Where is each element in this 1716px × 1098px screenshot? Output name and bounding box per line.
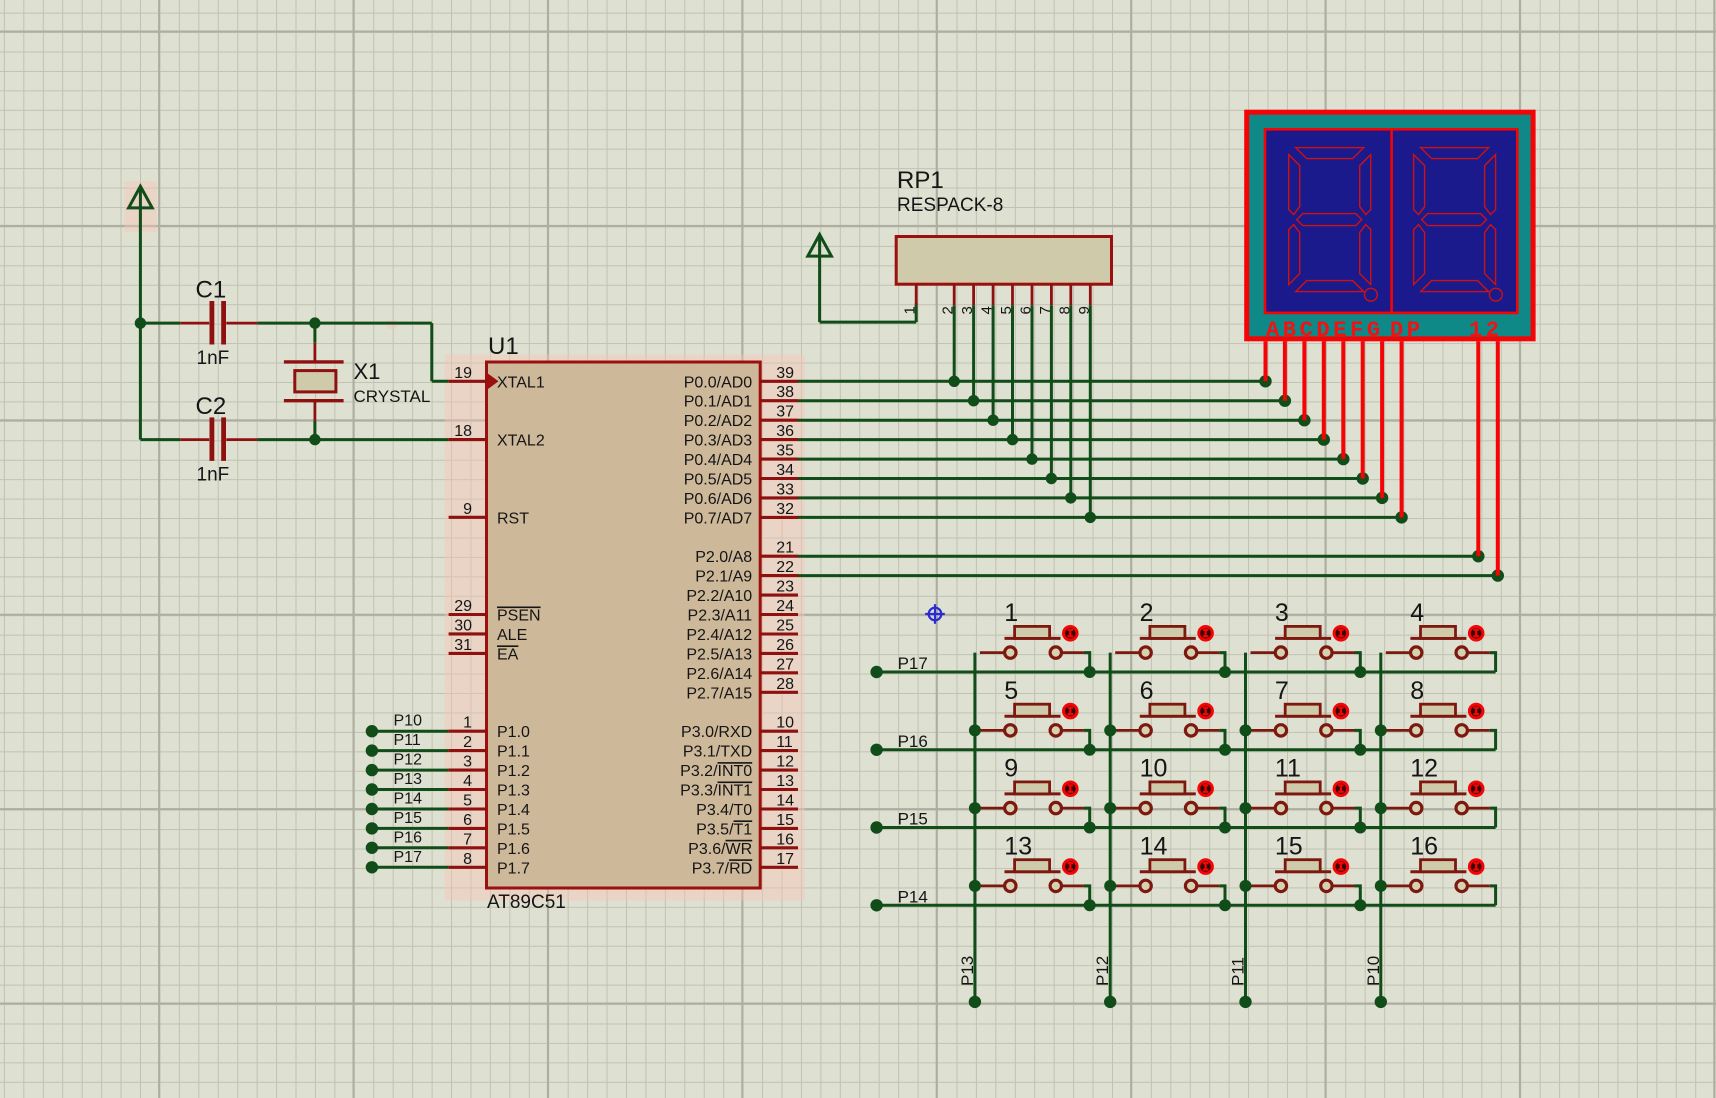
RP1 pin 6 — [1031, 284, 1034, 305]
svg-text:P0.3/AD3: P0.3/AD3 — [684, 433, 753, 450]
display pin digit 1 — [1476, 341, 1480, 556]
svg-text:P0.6/AD6: P0.6/AD6 — [684, 491, 753, 508]
svg-text:37: 37 — [776, 404, 794, 421]
pin 33 stub — [760, 496, 798, 499]
wire button 15 to row — [1355, 886, 1361, 905]
display pin F — [1361, 341, 1365, 478]
net terminal P14 — [366, 803, 378, 815]
svg-text:CRYSTAL: CRYSTAL — [354, 387, 431, 406]
push button 13 — [980, 860, 1084, 892]
display pin DP — [1400, 341, 1404, 517]
svg-text:14: 14 — [776, 793, 794, 810]
svg-text:16: 16 — [1410, 832, 1438, 860]
svg-text:2: 2 — [1140, 599, 1154, 627]
microcontroller U1 body — [487, 362, 761, 888]
pin 15 stub — [760, 827, 798, 830]
wire C2 to XTAL2 pin — [257, 438, 448, 441]
RP1 pin 5 — [1011, 284, 1014, 305]
svg-text:P16: P16 — [394, 829, 423, 846]
svg-text:P12: P12 — [1093, 956, 1112, 986]
wire RP1 pin 9 to P0.7 — [1089, 305, 1092, 517]
wire button 5 to row — [1084, 730, 1090, 749]
display pin G — [1380, 341, 1384, 498]
net terminal P15 — [366, 822, 378, 834]
wire net P0.1 — [798, 399, 1285, 402]
7-segment display body — [1247, 112, 1533, 339]
svg-text:9: 9 — [463, 501, 472, 518]
svg-text:AT89C51: AT89C51 — [487, 892, 566, 913]
junction button 10 / row — [1219, 822, 1231, 834]
svg-text:1: 1 — [1004, 599, 1018, 627]
svg-text:U1: U1 — [488, 333, 519, 360]
junction P0.2 / display pin — [1298, 414, 1310, 426]
junction button 13 / row — [1084, 899, 1096, 911]
svg-text:XTAL2: XTAL2 — [497, 433, 545, 450]
junction P2.0 / display pin — [1472, 550, 1484, 562]
wire rail to C1 — [140, 322, 180, 325]
wire button 3 to row — [1355, 653, 1361, 672]
junction C1/XTAL top — [309, 317, 320, 328]
svg-text:P0.2/AD2: P0.2/AD2 — [684, 413, 753, 430]
svg-text:P1.2: P1.2 — [497, 763, 530, 780]
junction P0.1 / display pin — [1279, 395, 1291, 407]
display pin C — [1302, 341, 1306, 420]
push button 4 — [1386, 626, 1490, 658]
wire power rail — [139, 208, 142, 440]
digit 2 segments — [1414, 148, 1503, 302]
svg-text:RP1: RP1 — [897, 167, 944, 194]
wire net P0.3 — [798, 438, 1324, 441]
push button 5 — [980, 704, 1084, 736]
pin 21 stub — [760, 555, 798, 558]
net terminal P10 — [1375, 996, 1387, 1008]
RP1 pin 3 — [972, 284, 975, 305]
wire C1 to corner — [257, 322, 432, 325]
origin marker (blue) — [925, 604, 945, 624]
pin 2 (P1.1) stub — [449, 749, 487, 752]
svg-text:7: 7 — [463, 831, 472, 848]
pin 3 (P1.2) stub — [449, 769, 487, 772]
junction RP1 pin 2 / P0.0 — [949, 376, 960, 387]
display pin B — [1283, 341, 1287, 400]
svg-text:12: 12 — [1469, 318, 1503, 343]
capacitor C1 — [180, 301, 257, 345]
svg-text:11: 11 — [776, 734, 793, 751]
RP1 pin 7 — [1050, 284, 1053, 305]
wire button 7 to row — [1355, 730, 1361, 749]
net terminal P12 — [366, 764, 378, 776]
pin 29 (PSEN) stub — [449, 613, 487, 616]
wire net P0.6 — [798, 496, 1382, 499]
svg-text:9: 9 — [1004, 755, 1018, 783]
junction RP1 pin 9 / P0.7 — [1085, 512, 1096, 523]
svg-text:1: 1 — [902, 306, 919, 314]
svg-text:P2.5/A13: P2.5/A13 — [686, 646, 752, 663]
wire button 13 to row — [1084, 886, 1090, 905]
svg-text:P0.1/AD1: P0.1/AD1 — [684, 394, 753, 411]
wire power to corner — [818, 256, 821, 322]
digit 1 segments — [1289, 148, 1378, 302]
net terminal P17 — [366, 861, 378, 873]
wire RP1 pin 3 to P0.1 — [972, 305, 975, 401]
junction button 8 / column — [1375, 724, 1387, 736]
crystal X1 — [284, 343, 344, 421]
svg-text:2: 2 — [463, 734, 472, 751]
svg-text:P2.0/A8: P2.0/A8 — [695, 549, 752, 566]
junction button 7 / column — [1240, 724, 1252, 736]
RP1 pin 1 — [915, 284, 918, 305]
wire net P13 column — [973, 653, 976, 1002]
junction P0.3 / display pin — [1318, 433, 1330, 445]
wire from crystal bottom — [313, 421, 316, 440]
svg-text:P2.6/A14: P2.6/A14 — [686, 666, 752, 683]
svg-text:38: 38 — [776, 384, 794, 401]
RP1 pin 9 — [1089, 284, 1092, 305]
svg-text:14: 14 — [1140, 832, 1168, 860]
junction RP1 pin 8 / P0.6 — [1065, 492, 1076, 503]
net terminal P14 — [870, 899, 882, 911]
svg-text:P14: P14 — [898, 887, 928, 906]
push button 7 — [1251, 704, 1355, 736]
svg-text:P13: P13 — [958, 956, 977, 986]
svg-text:12: 12 — [1410, 755, 1438, 783]
wire button 2 to row — [1219, 653, 1225, 672]
push button 8 — [1386, 704, 1490, 736]
pin 34 stub — [760, 477, 798, 480]
junction button 13 / column — [969, 880, 981, 892]
pin 1 (P1.0) stub — [449, 730, 487, 733]
svg-text:12: 12 — [776, 754, 794, 771]
net terminal P13 — [969, 996, 981, 1008]
svg-text:29: 29 — [454, 598, 472, 615]
svg-text:13: 13 — [1004, 832, 1032, 860]
svg-text:DP: DP — [1390, 318, 1424, 343]
pin 4 (P1.3) stub — [449, 788, 487, 791]
junction button 7 / row — [1354, 744, 1366, 756]
svg-text:15: 15 — [1275, 832, 1303, 860]
junction button 9 / column — [969, 802, 981, 814]
svg-text:26: 26 — [776, 637, 794, 654]
wire net P16 row — [877, 748, 1496, 751]
svg-text:34: 34 — [776, 462, 794, 479]
svg-text:22: 22 — [776, 559, 794, 576]
display pin D — [1322, 341, 1326, 439]
display pin E — [1341, 341, 1345, 459]
push button 11 — [1251, 782, 1355, 814]
svg-text:P3.0/RXD: P3.0/RXD — [681, 724, 752, 741]
push button 16 — [1386, 860, 1490, 892]
svg-text:8: 8 — [463, 851, 472, 868]
svg-text:P0.5/AD5: P0.5/AD5 — [684, 472, 753, 489]
svg-text:P15: P15 — [898, 810, 928, 829]
wire button 8 to row — [1490, 730, 1496, 749]
push button 1 — [980, 626, 1084, 658]
wire up to RP1 pin1 — [915, 303, 918, 322]
wire net P15 row — [877, 826, 1496, 829]
net terminal P12 — [1104, 996, 1116, 1008]
junction button 12 / column — [1375, 802, 1387, 814]
wire to crystal top — [313, 323, 316, 343]
selection highlight around U1 — [445, 355, 805, 901]
junction button 11 / row — [1354, 822, 1366, 834]
pin 24 stub — [760, 613, 798, 616]
junction button 2 / row — [1219, 666, 1231, 678]
junction RP1 pin 7 / P0.5 — [1046, 473, 1057, 484]
push button 2 — [1115, 626, 1219, 658]
wire RP1 pin 5 to P0.3 — [1011, 305, 1014, 439]
svg-text:30: 30 — [454, 617, 472, 634]
svg-text:8: 8 — [1410, 677, 1424, 705]
svg-text:17: 17 — [776, 851, 794, 868]
wire net P0.5 — [798, 477, 1363, 480]
wire net P0.0 — [798, 380, 1266, 383]
power symbol (RP1) — [808, 235, 832, 257]
svg-text:19: 19 — [454, 365, 472, 382]
wire net P14 row — [877, 904, 1496, 907]
wire button 10 to row — [1219, 808, 1225, 827]
svg-text:RESPACK-8: RESPACK-8 — [897, 195, 1003, 216]
power symbol (top-left) — [129, 186, 153, 208]
wire net P14 — [372, 808, 449, 811]
svg-text:13: 13 — [776, 773, 794, 790]
wire button 4 to row — [1490, 653, 1496, 672]
net terminal P15 — [870, 821, 882, 833]
svg-text:1nF: 1nF — [197, 348, 230, 369]
small highlight square on XTAL1 wire — [387, 320, 397, 329]
junction button 14 / column — [1104, 880, 1116, 892]
wire net P12 column — [1109, 653, 1112, 1002]
push button 12 — [1386, 782, 1490, 814]
svg-text:P1.0: P1.0 — [497, 724, 530, 741]
svg-text:1nF: 1nF — [197, 465, 230, 486]
wire net P17 — [372, 866, 449, 869]
wire net P0.7 — [798, 516, 1402, 519]
push button 3 — [1251, 626, 1355, 658]
pin 7 (P1.6) stub — [449, 846, 487, 849]
wire button 16 to row — [1490, 886, 1496, 905]
svg-text:P1.1: P1.1 — [497, 744, 530, 761]
pin 19 (XTAL1) stub — [449, 380, 487, 383]
pin 27 stub — [760, 671, 798, 674]
pin 39 stub — [760, 380, 798, 383]
selection highlight around power symbol — [125, 181, 157, 232]
pin 30 (ALE) stub — [449, 632, 487, 635]
push button 6 — [1115, 704, 1219, 736]
wire net P12 — [372, 769, 449, 772]
svg-text:16: 16 — [776, 831, 794, 848]
pin 36 stub — [760, 438, 798, 441]
wire corner down to XTAL1 — [430, 323, 433, 381]
push button 9 — [980, 782, 1084, 814]
svg-text:P3.7/RD: P3.7/RD — [692, 860, 752, 877]
pin 10 stub — [760, 730, 798, 733]
resistor pack RP1 body — [896, 237, 1111, 285]
pin 22 stub — [760, 574, 798, 577]
junction button 1 / row — [1084, 666, 1096, 678]
svg-text:33: 33 — [776, 481, 794, 498]
pin 26 stub — [760, 652, 798, 655]
svg-text:P16: P16 — [898, 732, 928, 751]
wire RP1 pin 7 to P0.5 — [1050, 305, 1053, 478]
wire button 11 to row — [1355, 808, 1361, 827]
svg-text:P1.7: P1.7 — [497, 860, 530, 877]
svg-text:P1.4: P1.4 — [497, 802, 530, 819]
svg-text:3: 3 — [463, 754, 472, 771]
svg-text:C1: C1 — [196, 277, 227, 304]
svg-text:P11: P11 — [394, 732, 421, 749]
wire net P2.0 — [798, 555, 1478, 558]
display pin digit 2 — [1496, 341, 1500, 575]
pin 35 stub — [760, 458, 798, 461]
svg-text:15: 15 — [776, 812, 794, 829]
wire button 1 to row — [1084, 653, 1090, 672]
wire net P17 row — [877, 671, 1496, 674]
wire net P13 — [372, 788, 449, 791]
svg-text:24: 24 — [776, 598, 794, 615]
svg-text:C2: C2 — [196, 393, 227, 420]
net terminal P16 — [366, 842, 378, 854]
svg-text:18: 18 — [454, 423, 472, 440]
pin 38 stub — [760, 399, 798, 402]
svg-text:P17: P17 — [394, 849, 423, 866]
net terminal P13 — [366, 783, 378, 795]
wire RP1 pin 6 to P0.4 — [1031, 305, 1034, 459]
net terminal P11 — [1239, 996, 1251, 1008]
svg-text:27: 27 — [776, 656, 794, 673]
svg-text:25: 25 — [776, 618, 794, 635]
svg-text:P13: P13 — [394, 771, 423, 788]
junction RP1 pin 6 / P0.4 — [1026, 453, 1037, 464]
svg-text:28: 28 — [776, 676, 794, 693]
svg-text:21: 21 — [776, 540, 794, 557]
junction rail/C1 — [135, 317, 146, 328]
XTAL1 clock arrow — [488, 373, 499, 389]
wire RP1 pin 8 to P0.6 — [1069, 305, 1072, 498]
wire to XTAL1 pin — [432, 380, 449, 383]
wire net P10 column — [1379, 653, 1382, 1002]
pin 28 stub — [760, 691, 798, 694]
wire corner to RP1 pin1 — [820, 321, 917, 324]
junction button 5 / row — [1084, 744, 1096, 756]
pin 13 stub — [760, 788, 798, 791]
display pin A — [1264, 341, 1268, 381]
svg-text:P15: P15 — [394, 810, 423, 827]
pin 18 (XTAL2) stub — [449, 438, 487, 441]
junction P0.4 / display pin — [1337, 453, 1349, 465]
pin 31 (EA) stub — [449, 652, 487, 655]
svg-text:39: 39 — [776, 365, 794, 382]
svg-text:5: 5 — [463, 793, 472, 810]
svg-text:1: 1 — [463, 715, 472, 732]
capacitor C2 — [180, 417, 257, 461]
wire button 6 to row — [1219, 730, 1225, 749]
junction button 15 / column — [1240, 880, 1252, 892]
junction button 16 / column — [1375, 880, 1387, 892]
push button 14 — [1115, 860, 1219, 892]
wire net P2.1 — [798, 574, 1498, 577]
junction button 10 / column — [1104, 802, 1116, 814]
junction button 6 / row — [1219, 744, 1231, 756]
svg-text:P2.7/A15: P2.7/A15 — [686, 685, 752, 702]
svg-text:EA: EA — [497, 646, 519, 663]
wire net P15 — [372, 827, 449, 830]
svg-text:4: 4 — [1410, 599, 1424, 627]
wire net P11 — [372, 749, 449, 752]
svg-text:P2.1/A9: P2.1/A9 — [695, 569, 752, 586]
junction button 3 / row — [1354, 666, 1366, 678]
svg-text:P3.5/T1: P3.5/T1 — [696, 821, 752, 838]
wire rail to C2 — [140, 438, 180, 441]
pin 12 stub — [760, 769, 798, 772]
svg-text:23: 23 — [776, 579, 794, 596]
svg-text:4: 4 — [463, 773, 472, 790]
svg-text:P17: P17 — [898, 654, 928, 673]
junction P0.5 / display pin — [1357, 472, 1369, 484]
junction RP1 pin 3 / P0.1 — [968, 395, 979, 406]
junction P2.1 / display pin — [1492, 569, 1504, 581]
svg-text:PSEN: PSEN — [497, 608, 541, 625]
pin 6 (P1.5) stub — [449, 827, 487, 830]
pin 23 stub — [760, 594, 798, 597]
push button 15 — [1251, 860, 1355, 892]
RP1 pin 2 — [953, 284, 956, 305]
net terminal P16 — [870, 744, 882, 756]
svg-text:6: 6 — [463, 812, 472, 829]
pin 25 stub — [760, 632, 798, 635]
svg-text:P1.6: P1.6 — [497, 841, 530, 858]
svg-text:P3.2/INT0: P3.2/INT0 — [680, 763, 752, 780]
svg-text:32: 32 — [776, 501, 794, 518]
svg-text:5: 5 — [1004, 677, 1018, 705]
pin 16 stub — [760, 846, 798, 849]
svg-text:P0.7/AD7: P0.7/AD7 — [684, 510, 753, 527]
svg-text:6: 6 — [1140, 677, 1154, 705]
svg-text:ABCDEFG: ABCDEFG — [1266, 318, 1384, 343]
svg-text:P3.4/T0: P3.4/T0 — [696, 802, 752, 819]
wire button 14 to row — [1219, 886, 1225, 905]
pin 14 stub — [760, 807, 798, 810]
svg-text:ALE: ALE — [497, 627, 527, 644]
svg-text:10: 10 — [1140, 755, 1168, 783]
svg-text:3: 3 — [1275, 599, 1289, 627]
net terminal P11 — [366, 744, 378, 756]
wire net P16 — [372, 846, 449, 849]
svg-text:35: 35 — [776, 443, 794, 460]
svg-text:P2.2/A10: P2.2/A10 — [686, 588, 752, 605]
svg-text:10: 10 — [776, 715, 794, 732]
wire net P0.2 — [798, 419, 1304, 422]
svg-text:RST: RST — [497, 510, 529, 527]
svg-text:31: 31 — [454, 637, 472, 654]
junction P0.6 / display pin — [1376, 492, 1388, 504]
svg-text:P10: P10 — [394, 713, 423, 730]
svg-text:P12: P12 — [394, 752, 423, 769]
junction RP1 pin 5 / P0.3 — [1007, 434, 1018, 445]
svg-text:P1.3: P1.3 — [497, 783, 530, 800]
svg-text:P3.6/WR: P3.6/WR — [688, 841, 752, 858]
svg-text:P10: P10 — [1364, 956, 1383, 986]
pin 37 stub — [760, 419, 798, 422]
junction P0.0 / display pin — [1259, 375, 1271, 387]
pin 17 stub — [760, 866, 798, 869]
wire button 12 to row — [1490, 808, 1496, 827]
junction button 6 / column — [1104, 724, 1116, 736]
junction button 14 / row — [1219, 899, 1231, 911]
svg-text:P2.3/A11: P2.3/A11 — [688, 608, 753, 625]
svg-text:11: 11 — [1275, 755, 1301, 783]
svg-text:P2.4/A12: P2.4/A12 — [686, 627, 752, 644]
wire net P11 column — [1244, 653, 1247, 1002]
